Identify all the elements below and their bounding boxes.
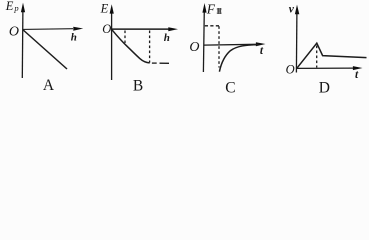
dashed horizontal (C): [205, 25, 219, 27]
svg-text:E: E: [5, 0, 14, 13]
svg-text:h: h: [71, 31, 77, 43]
dashed vertical (C): [218, 26, 220, 67]
x-axis (D) with arrow: [297, 67, 353, 69]
curve (B): steep descent then plateau: [112, 30, 150, 63]
y-axis (D): [295, 12, 298, 73]
svg-text:O: O: [189, 40, 199, 55]
line graph (D): rise to peak, sharp drop, level off: [297, 43, 367, 68]
dashed horizontal continuation (B): [152, 62, 157, 64]
y-axis (C): [202, 10, 205, 73]
svg-text:F: F: [206, 2, 216, 17]
svg-text:v: v: [289, 4, 295, 16]
svg-text:A: A: [43, 77, 55, 94]
svg-text:O: O: [102, 22, 111, 36]
svg-text:B: B: [133, 78, 143, 95]
dashed vertical 2 (B): [149, 31, 151, 63]
dashed vertical (D): [316, 46, 318, 68]
y-axis (A): [21, 9, 24, 78]
svg-text:O: O: [9, 24, 19, 39]
svg-text:h: h: [164, 32, 170, 44]
svg-text:p: p: [13, 3, 18, 13]
svg-text:O: O: [286, 63, 295, 77]
svg-text:E: E: [100, 2, 109, 16]
line graph (A): straight descending line: [23, 30, 67, 69]
dashed vertical 1 (B): [124, 31, 126, 44]
x-axis (B) with arrow: [112, 28, 169, 30]
subscript CJK blob (C): [217, 8, 222, 14]
svg-text:D: D: [319, 79, 330, 96]
x-axis (A) with arrow: [23, 28, 73, 31]
y-axis (B): [111, 10, 113, 80]
x-axis (C) with arrow: [204, 43, 256, 46]
curve (C): rises from below toward x-axis: [219, 45, 258, 72]
svg-text:C: C: [225, 79, 235, 96]
